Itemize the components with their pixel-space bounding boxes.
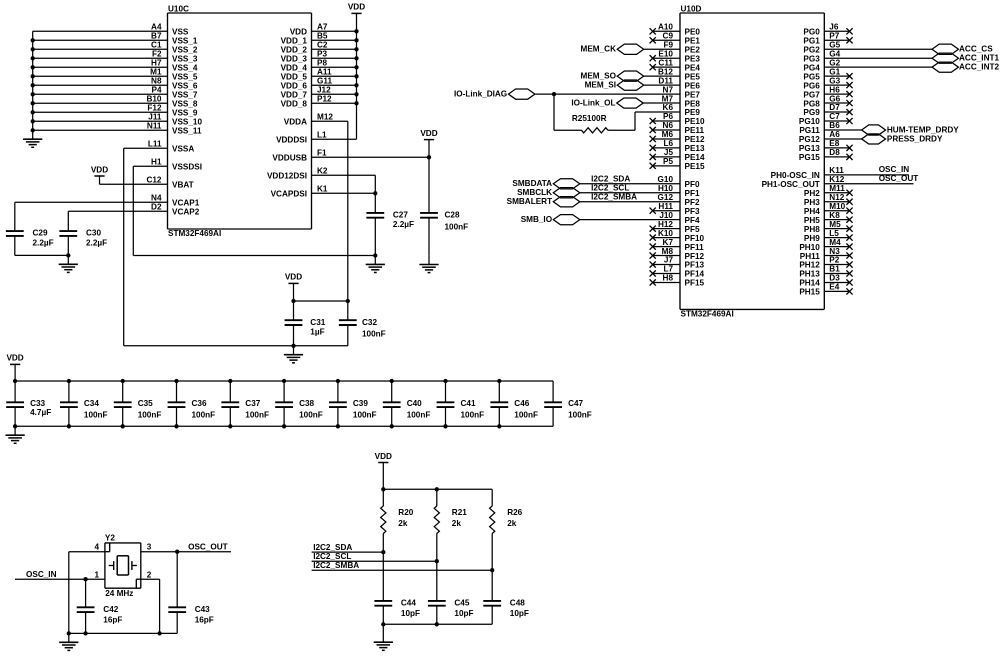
svg-text:K12: K12 xyxy=(829,175,844,184)
svg-text:OSC_IN: OSC_IN xyxy=(26,570,57,579)
svg-text:3: 3 xyxy=(147,542,152,551)
svg-text:C30: C30 xyxy=(86,229,101,238)
svg-text:C35: C35 xyxy=(138,399,153,408)
svg-text:F9: F9 xyxy=(663,40,673,49)
svg-text:C9: C9 xyxy=(663,31,674,40)
svg-text:PF2: PF2 xyxy=(685,198,700,207)
svg-text:D11: D11 xyxy=(658,76,673,85)
svg-text:B7: B7 xyxy=(151,32,162,41)
svg-text:PE7: PE7 xyxy=(685,90,701,99)
svg-text:PE0: PE0 xyxy=(685,28,701,37)
svg-text:G6: G6 xyxy=(829,94,840,103)
svg-text:M12: M12 xyxy=(317,113,333,122)
svg-text:100nF: 100nF xyxy=(138,411,162,420)
svg-text:MEM_CK: MEM_CK xyxy=(581,45,617,54)
svg-text:VSS_11: VSS_11 xyxy=(172,127,202,136)
svg-text:E10: E10 xyxy=(658,49,673,58)
svg-text:M1: M1 xyxy=(150,68,162,77)
svg-text:A10: A10 xyxy=(658,23,673,32)
svg-text:VDDUSB: VDDUSB xyxy=(272,154,307,163)
svg-text:C44: C44 xyxy=(401,599,416,608)
svg-text:VDD_2: VDD_2 xyxy=(281,46,308,55)
svg-text:G12: G12 xyxy=(658,193,674,202)
svg-text:PE8: PE8 xyxy=(685,99,701,108)
svg-text:4.7µF: 4.7µF xyxy=(30,408,51,417)
svg-text:C7: C7 xyxy=(829,112,840,121)
svg-text:C2: C2 xyxy=(317,41,328,50)
svg-text:100nF: 100nF xyxy=(407,411,431,420)
svg-text:C37: C37 xyxy=(245,399,260,408)
svg-text:R25100R: R25100R xyxy=(572,114,607,123)
svg-text:H11: H11 xyxy=(658,202,673,211)
svg-text:G5: G5 xyxy=(829,40,840,49)
svg-text:2k: 2k xyxy=(452,519,462,528)
svg-text:PH14: PH14 xyxy=(799,279,820,288)
svg-text:K11: K11 xyxy=(829,166,844,175)
svg-text:PE10: PE10 xyxy=(685,117,705,126)
svg-text:PG13: PG13 xyxy=(799,144,820,153)
svg-text:100nF: 100nF xyxy=(299,411,323,420)
svg-text:PE1: PE1 xyxy=(685,36,701,45)
svg-text:ACC_INT1: ACC_INT1 xyxy=(959,54,999,63)
svg-text:G2: G2 xyxy=(829,58,840,67)
svg-text:PRESS_DRDY: PRESS_DRDY xyxy=(887,134,943,143)
svg-text:VCAP1: VCAP1 xyxy=(172,199,200,208)
svg-text:2.2µF: 2.2µF xyxy=(33,238,54,247)
svg-text:VSS_10: VSS_10 xyxy=(172,118,202,127)
svg-text:STM32F469AI: STM32F469AI xyxy=(168,229,221,238)
svg-text:N12: N12 xyxy=(829,193,844,202)
svg-text:PH15: PH15 xyxy=(799,288,820,297)
svg-text:VDD12DSI: VDD12DSI xyxy=(267,172,307,181)
svg-text:2.2µF: 2.2µF xyxy=(86,238,107,247)
svg-text:16pF: 16pF xyxy=(103,615,122,624)
svg-text:G3: G3 xyxy=(829,76,840,85)
svg-text:PF5: PF5 xyxy=(685,225,700,234)
svg-text:C39: C39 xyxy=(353,399,368,408)
svg-text:VBAT: VBAT xyxy=(172,181,194,190)
svg-text:PF14: PF14 xyxy=(685,270,705,279)
svg-text:16pF: 16pF xyxy=(195,615,214,624)
svg-text:PG5: PG5 xyxy=(803,72,820,81)
svg-text:PE14: PE14 xyxy=(685,153,705,162)
svg-text:10pF: 10pF xyxy=(454,609,473,618)
svg-text:PG12: PG12 xyxy=(799,135,820,144)
svg-text:24 MHz: 24 MHz xyxy=(105,589,133,598)
svg-text:J7: J7 xyxy=(664,256,674,265)
svg-text:10pF: 10pF xyxy=(510,609,529,618)
svg-text:100nF: 100nF xyxy=(445,223,469,232)
svg-text:VDD_1: VDD_1 xyxy=(281,37,308,46)
svg-text:K1: K1 xyxy=(317,185,328,194)
svg-text:PH12: PH12 xyxy=(799,261,820,270)
svg-text:C40: C40 xyxy=(407,399,422,408)
svg-text:VSS_1: VSS_1 xyxy=(172,37,198,46)
svg-text:PG2: PG2 xyxy=(803,45,820,54)
svg-text:P8: P8 xyxy=(317,59,327,68)
svg-text:C32: C32 xyxy=(362,318,377,327)
svg-text:1: 1 xyxy=(94,570,99,579)
svg-text:VDDA: VDDA xyxy=(284,118,307,127)
svg-text:PE11: PE11 xyxy=(685,126,705,135)
svg-text:H6: H6 xyxy=(829,85,840,94)
svg-text:P7: P7 xyxy=(829,31,839,40)
svg-text:F2: F2 xyxy=(152,50,162,59)
svg-text:I2C2_SDA: I2C2_SDA xyxy=(313,543,352,552)
svg-text:C27: C27 xyxy=(393,211,408,220)
svg-text:C47: C47 xyxy=(568,399,583,408)
svg-text:VSS_6: VSS_6 xyxy=(172,82,198,91)
svg-text:MEM_SO: MEM_SO xyxy=(581,72,617,81)
svg-text:VDD_3: VDD_3 xyxy=(281,55,308,64)
svg-text:H10: H10 xyxy=(658,184,673,193)
svg-text:C45: C45 xyxy=(454,599,469,608)
svg-text:C29: C29 xyxy=(33,229,48,238)
svg-text:PE15: PE15 xyxy=(685,162,705,171)
svg-text:C34: C34 xyxy=(84,399,99,408)
svg-text:N11: N11 xyxy=(147,122,162,131)
svg-text:VDD_7: VDD_7 xyxy=(281,91,308,100)
svg-text:PE13: PE13 xyxy=(685,144,705,153)
svg-text:M4: M4 xyxy=(829,238,841,247)
svg-text:PE2: PE2 xyxy=(685,45,701,54)
svg-text:PF10: PF10 xyxy=(685,234,705,243)
svg-text:PH5: PH5 xyxy=(804,216,820,225)
svg-text:ACC_INT2: ACC_INT2 xyxy=(959,63,999,72)
svg-text:C43: C43 xyxy=(195,605,210,614)
svg-text:A11: A11 xyxy=(317,68,332,77)
svg-text:100nF: 100nF xyxy=(245,411,269,420)
svg-text:C46: C46 xyxy=(514,399,529,408)
svg-text:PH2: PH2 xyxy=(804,189,820,198)
svg-text:C41: C41 xyxy=(461,399,476,408)
svg-text:PH1-OSC_OUT: PH1-OSC_OUT xyxy=(762,180,820,189)
svg-text:IO-Link_DIAG: IO-Link_DIAG xyxy=(454,89,507,98)
svg-text:K7: K7 xyxy=(663,238,674,247)
svg-text:OSC_OUT: OSC_OUT xyxy=(188,542,228,551)
svg-text:PF3: PF3 xyxy=(685,207,700,216)
svg-text:PH9: PH9 xyxy=(804,234,820,243)
svg-text:PH0-OSC_IN: PH0-OSC_IN xyxy=(771,171,820,180)
svg-text:G1: G1 xyxy=(829,67,840,76)
svg-text:VSS_3: VSS_3 xyxy=(172,55,198,64)
svg-text:PF15: PF15 xyxy=(685,279,705,288)
svg-text:VDD: VDD xyxy=(375,452,392,461)
svg-text:VDD_4: VDD_4 xyxy=(281,64,308,73)
svg-text:L5: L5 xyxy=(829,229,839,238)
svg-text:R21: R21 xyxy=(452,508,467,517)
svg-text:B1: B1 xyxy=(829,265,840,274)
svg-text:VDD: VDD xyxy=(420,129,437,138)
svg-text:N3: N3 xyxy=(829,247,840,256)
svg-text:I2C2_SCL: I2C2_SCL xyxy=(591,184,629,193)
svg-text:P2: P2 xyxy=(829,256,839,265)
svg-text:VDD: VDD xyxy=(285,273,302,282)
svg-text:PF13: PF13 xyxy=(685,261,705,270)
svg-text:PH10: PH10 xyxy=(799,243,820,252)
svg-text:M6: M6 xyxy=(662,130,674,139)
svg-text:STM32F469AI: STM32F469AI xyxy=(681,310,734,319)
svg-text:L1: L1 xyxy=(317,131,327,140)
svg-text:2.2µF: 2.2µF xyxy=(393,220,414,229)
svg-text:L7: L7 xyxy=(663,265,673,274)
svg-text:B12: B12 xyxy=(658,67,673,76)
svg-text:2: 2 xyxy=(147,570,152,579)
svg-text:4: 4 xyxy=(94,542,99,551)
svg-text:VSS_8: VSS_8 xyxy=(172,100,198,109)
svg-text:N4: N4 xyxy=(151,194,162,203)
svg-text:100nF: 100nF xyxy=(362,330,386,339)
svg-text:R26: R26 xyxy=(507,508,522,517)
svg-text:F12: F12 xyxy=(147,104,162,113)
svg-text:D3: D3 xyxy=(829,274,840,283)
svg-text:PG4: PG4 xyxy=(803,63,820,72)
svg-text:P4: P4 xyxy=(151,86,161,95)
svg-text:I2C2_SCL: I2C2_SCL xyxy=(313,552,351,561)
svg-text:100nF: 100nF xyxy=(353,411,377,420)
svg-text:100nF: 100nF xyxy=(192,411,216,420)
svg-text:P3: P3 xyxy=(317,50,327,59)
svg-text:K2: K2 xyxy=(317,167,328,176)
svg-text:100nF: 100nF xyxy=(461,411,485,420)
svg-text:C48: C48 xyxy=(510,599,525,608)
svg-text:PE12: PE12 xyxy=(685,135,705,144)
svg-text:PG10: PG10 xyxy=(799,117,820,126)
svg-text:J10: J10 xyxy=(659,211,673,220)
svg-text:B10: B10 xyxy=(146,95,161,104)
svg-text:L11: L11 xyxy=(148,140,162,149)
svg-text:PF0: PF0 xyxy=(685,180,700,189)
svg-text:2k: 2k xyxy=(398,519,408,528)
svg-text:N6: N6 xyxy=(663,121,674,130)
svg-text:A6: A6 xyxy=(829,130,840,139)
svg-text:IO-Link_OL: IO-Link_OL xyxy=(571,98,615,107)
svg-text:1µF: 1µF xyxy=(310,328,324,337)
svg-text:100nF: 100nF xyxy=(514,411,538,420)
svg-text:B6: B6 xyxy=(829,121,840,130)
svg-text:VDD_6: VDD_6 xyxy=(281,82,308,91)
svg-text:VSS_9: VSS_9 xyxy=(172,109,198,118)
svg-text:PG8: PG8 xyxy=(803,99,820,108)
svg-text:SMBALERT: SMBALERT xyxy=(507,197,552,206)
svg-text:VDD: VDD xyxy=(348,3,365,12)
svg-text:PF12: PF12 xyxy=(685,252,705,261)
svg-text:H8: H8 xyxy=(663,274,674,283)
svg-text:H7: H7 xyxy=(151,59,162,68)
svg-text:G11: G11 xyxy=(317,77,332,86)
svg-text:K10: K10 xyxy=(658,229,673,238)
svg-text:N8: N8 xyxy=(151,77,162,86)
svg-text:SMBCLK: SMBCLK xyxy=(517,188,552,197)
svg-text:HUM-TEMP_DRDY: HUM-TEMP_DRDY xyxy=(887,125,959,134)
svg-text:PG11: PG11 xyxy=(799,126,820,135)
svg-text:VDD: VDD xyxy=(290,28,307,37)
svg-text:PH8: PH8 xyxy=(804,225,820,234)
svg-text:PG3: PG3 xyxy=(803,54,820,63)
svg-text:C1: C1 xyxy=(151,41,162,50)
svg-text:J6: J6 xyxy=(829,23,839,32)
svg-text:U10D: U10D xyxy=(681,4,702,13)
svg-text:VDD_8: VDD_8 xyxy=(281,100,308,109)
svg-text:C38: C38 xyxy=(299,399,314,408)
svg-text:K6: K6 xyxy=(663,103,674,112)
svg-text:VSS_5: VSS_5 xyxy=(172,73,198,82)
svg-text:C28: C28 xyxy=(445,211,460,220)
svg-text:E4: E4 xyxy=(829,283,839,292)
svg-text:VSS_4: VSS_4 xyxy=(172,64,198,73)
svg-text:J12: J12 xyxy=(317,86,331,95)
svg-text:C36: C36 xyxy=(192,399,207,408)
svg-text:L6: L6 xyxy=(663,139,673,148)
svg-text:PE9: PE9 xyxy=(685,108,701,117)
svg-text:PH13: PH13 xyxy=(799,270,820,279)
svg-text:D8: D8 xyxy=(829,148,840,157)
svg-text:A4: A4 xyxy=(151,23,162,32)
svg-text:R20: R20 xyxy=(398,508,413,517)
svg-text:G4: G4 xyxy=(829,49,840,58)
svg-text:PE6: PE6 xyxy=(685,81,701,90)
svg-text:VSS_2: VSS_2 xyxy=(172,46,198,55)
svg-text:PE4: PE4 xyxy=(685,63,701,72)
svg-text:P6: P6 xyxy=(663,112,673,121)
svg-text:D7: D7 xyxy=(829,103,840,112)
svg-text:VDD_5: VDD_5 xyxy=(281,73,308,82)
svg-text:PE3: PE3 xyxy=(685,54,701,63)
svg-text:PH11: PH11 xyxy=(800,252,820,261)
svg-text:P12: P12 xyxy=(317,95,332,104)
svg-text:M5: M5 xyxy=(829,220,841,229)
svg-text:Y2: Y2 xyxy=(105,534,115,543)
svg-text:10pF: 10pF xyxy=(401,609,420,618)
svg-text:J11: J11 xyxy=(148,113,162,122)
svg-text:VSSDSI: VSSDSI xyxy=(172,163,202,172)
svg-text:H1: H1 xyxy=(151,158,162,167)
svg-text:OSC_OUT: OSC_OUT xyxy=(879,174,919,183)
svg-text:M11: M11 xyxy=(829,184,845,193)
svg-text:PG15: PG15 xyxy=(799,153,820,162)
svg-text:SMBDATA: SMBDATA xyxy=(512,179,552,188)
svg-text:M10: M10 xyxy=(829,202,845,211)
svg-text:I2C2_SMBA: I2C2_SMBA xyxy=(313,561,359,570)
svg-text:I2C2_SMBA: I2C2_SMBA xyxy=(591,193,637,202)
svg-text:SMB_IO: SMB_IO xyxy=(521,215,553,224)
svg-text:M8: M8 xyxy=(662,247,674,256)
svg-text:J5: J5 xyxy=(664,148,674,157)
svg-text:VCAPDSI: VCAPDSI xyxy=(271,190,307,199)
svg-text:PF1: PF1 xyxy=(685,189,700,198)
svg-text:PF4: PF4 xyxy=(685,216,700,225)
svg-text:U10C: U10C xyxy=(168,4,189,13)
svg-text:2k: 2k xyxy=(507,519,517,528)
svg-text:K8: K8 xyxy=(829,211,840,220)
svg-text:G10: G10 xyxy=(658,175,674,184)
svg-text:VDD: VDD xyxy=(91,165,108,174)
svg-text:P5: P5 xyxy=(663,157,673,166)
svg-text:PH3: PH3 xyxy=(804,198,820,207)
svg-text:100nF: 100nF xyxy=(568,411,592,420)
svg-text:PG7: PG7 xyxy=(803,90,820,99)
svg-text:100nF: 100nF xyxy=(84,411,108,420)
svg-text:VCAP2: VCAP2 xyxy=(172,208,200,217)
svg-text:C33: C33 xyxy=(30,399,45,408)
svg-text:I2C2_SDA: I2C2_SDA xyxy=(591,175,630,184)
svg-text:B5: B5 xyxy=(317,32,328,41)
svg-text:F1: F1 xyxy=(317,149,327,158)
svg-text:PE5: PE5 xyxy=(685,72,701,81)
svg-text:MEM_SI: MEM_SI xyxy=(585,81,616,90)
svg-text:C42: C42 xyxy=(103,605,118,614)
svg-text:VSSA: VSSA xyxy=(172,145,194,154)
svg-text:D2: D2 xyxy=(151,203,162,212)
svg-text:PF11: PF11 xyxy=(685,243,705,252)
svg-text:VSS: VSS xyxy=(172,28,189,37)
svg-text:PG0: PG0 xyxy=(803,28,820,37)
svg-text:C11: C11 xyxy=(658,58,673,67)
svg-text:PG6: PG6 xyxy=(803,81,820,90)
svg-text:VDD: VDD xyxy=(6,354,23,363)
svg-text:E8: E8 xyxy=(829,139,839,148)
svg-text:M7: M7 xyxy=(662,94,674,103)
svg-text:H12: H12 xyxy=(658,220,673,229)
svg-text:PG9: PG9 xyxy=(803,108,820,117)
svg-text:PG1: PG1 xyxy=(803,36,820,45)
svg-text:VSS_7: VSS_7 xyxy=(172,91,198,100)
svg-text:C31: C31 xyxy=(310,318,325,327)
svg-text:C12: C12 xyxy=(146,176,161,185)
svg-text:ACC_CS: ACC_CS xyxy=(959,45,993,54)
svg-text:N7: N7 xyxy=(663,85,674,94)
svg-text:A7: A7 xyxy=(317,23,328,32)
svg-text:PH4: PH4 xyxy=(804,207,820,216)
svg-text:OSC_IN: OSC_IN xyxy=(879,165,910,174)
svg-text:VDDDSI: VDDDSI xyxy=(276,136,307,145)
